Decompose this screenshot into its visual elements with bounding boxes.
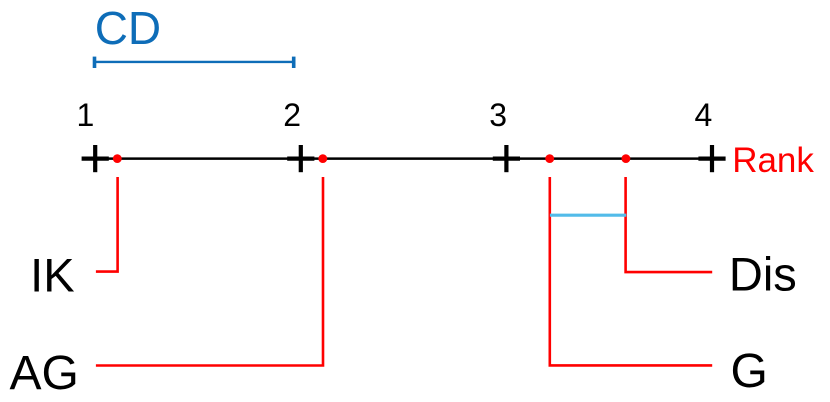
IK connector line	[96, 177, 118, 272]
CD interval bar	[95, 61, 294, 63]
svg-text:2: 2	[283, 97, 301, 133]
Dis rank dot	[622, 154, 631, 163]
G rank dot	[545, 154, 554, 163]
svg-text:G: G	[731, 345, 768, 398]
CD bar right cap	[292, 57, 296, 68]
rank axis line	[95, 157, 712, 160]
AG rank dot	[318, 154, 327, 163]
Dis connector line	[626, 177, 713, 272]
tick 3 plus marker	[493, 145, 520, 172]
svg-text:AG: AG	[9, 347, 78, 400]
svg-text:4: 4	[695, 97, 713, 133]
AG connector line	[96, 177, 323, 366]
tick 4 plus marker	[698, 145, 725, 172]
svg-text:Dis: Dis	[729, 247, 797, 300]
svg-text:IK: IK	[30, 248, 74, 301]
CD bar left cap	[93, 57, 97, 68]
svg-text:Rank: Rank	[732, 141, 814, 180]
IK rank dot	[113, 154, 122, 163]
svg-text:1: 1	[77, 97, 95, 133]
tick 2 plus marker	[287, 145, 314, 172]
clique bar G-Dis	[550, 214, 626, 217]
tick 1 plus marker	[82, 145, 109, 172]
svg-text:CD: CD	[95, 2, 161, 54]
svg-text:3: 3	[489, 97, 507, 133]
G connector line	[550, 177, 712, 365]
